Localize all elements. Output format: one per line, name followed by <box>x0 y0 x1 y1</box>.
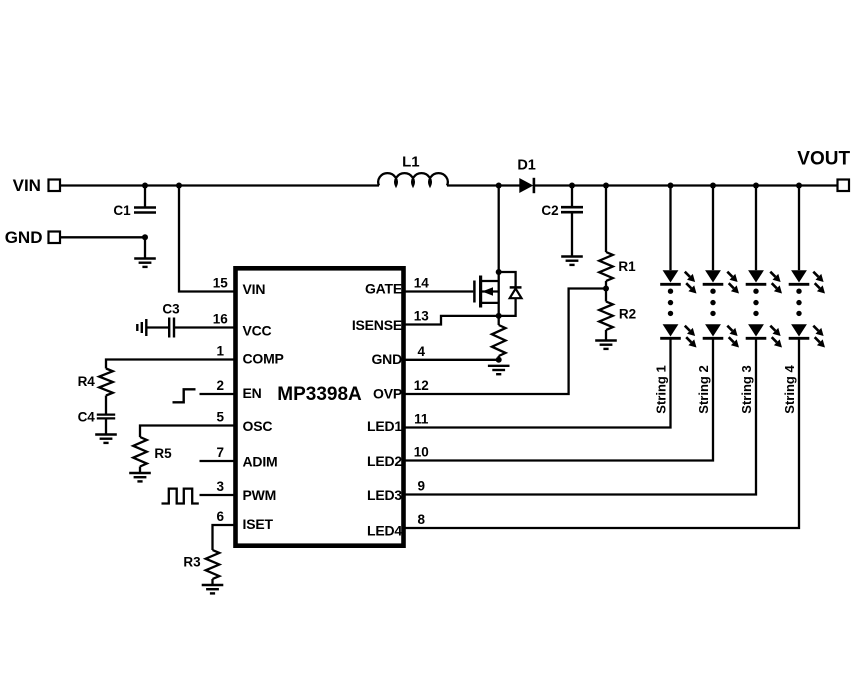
svg-text:6: 6 <box>217 509 225 524</box>
LED D1B string 1 bottom <box>663 324 679 336</box>
ground under sense resistor <box>488 365 510 367</box>
node rail-R1 junction <box>603 183 609 189</box>
PWM square waveform symbol <box>162 489 199 504</box>
wire rail to string 4 <box>798 186 800 271</box>
wire pin 13 ISENSE to source <box>404 316 499 325</box>
string 1 ellipsis dots <box>668 289 673 294</box>
wire pin 6 ISET to R3 <box>213 525 236 550</box>
svg-text:String 4: String 4 <box>782 365 797 414</box>
resistor R4 <box>99 369 113 396</box>
LED D3A string 3 top <box>748 270 764 282</box>
wire ground to C3 <box>146 326 169 328</box>
svg-text:MP3398A: MP3398A <box>277 384 362 405</box>
node rail string 4 junction <box>796 183 802 189</box>
svg-text:PWM: PWM <box>243 487 277 503</box>
wire string 2 to pin LED2 <box>404 338 713 460</box>
LED D1A string 1 top <box>663 270 679 282</box>
svg-text:1: 1 <box>217 344 225 359</box>
resistor R5 <box>133 437 147 467</box>
node sense-gnd junction <box>496 357 502 363</box>
svg-text:GND: GND <box>371 351 402 367</box>
LED D4B string 4 bottom <box>791 324 807 336</box>
wire rail to string 2 <box>712 186 714 271</box>
capacitor C4 <box>97 414 115 416</box>
svg-text:VOUT: VOUT <box>797 149 850 170</box>
ground left of C3 <box>136 324 138 331</box>
svg-text:OSC: OSC <box>243 418 273 434</box>
resistor R2 <box>605 289 607 302</box>
wire pin 12 OVP to R1-R2 divider <box>404 289 606 395</box>
op-amp U1 MP3398A body <box>236 268 404 545</box>
LED D2A string 2 top <box>705 270 721 282</box>
svg-text:15: 15 <box>213 276 229 291</box>
wire R5 to ground <box>139 467 141 473</box>
wire pin 7 ADIM stub <box>200 460 236 462</box>
svg-text:VIN: VIN <box>243 281 266 297</box>
wire string 4 to pin LED4 <box>404 338 799 528</box>
string 2 ellipsis dots <box>710 289 715 294</box>
svg-text:7: 7 <box>217 445 225 460</box>
svg-text:String 1: String 1 <box>653 365 668 413</box>
svg-text:R1: R1 <box>618 259 636 274</box>
LED D4A string 4 top <box>791 270 807 282</box>
svg-text:C2: C2 <box>541 203 558 218</box>
wire drain to rail <box>498 186 500 273</box>
node rail string 1 junction <box>668 183 674 189</box>
ground under C1 <box>134 257 156 259</box>
resistor Rsense <box>498 316 500 325</box>
node rail-drain junction <box>496 183 502 189</box>
ground under C4 <box>95 433 117 435</box>
resistor R1 <box>605 186 607 253</box>
node R1-R2 junction <box>603 286 609 292</box>
svg-text:14: 14 <box>414 276 430 291</box>
node GND-C1 junction <box>142 234 148 240</box>
wire pin 5 OSC to R5 <box>140 426 235 438</box>
svg-text:L1: L1 <box>402 154 420 171</box>
node source junction <box>496 313 502 319</box>
svg-text:12: 12 <box>414 378 429 393</box>
wire R4 to C4 <box>105 396 107 415</box>
svg-text:16: 16 <box>213 312 229 327</box>
diode D1 <box>519 178 533 193</box>
EN enable step waveform symbol <box>173 389 196 402</box>
transistor Q1 MOSFET <box>473 281 476 303</box>
svg-text:R2: R2 <box>619 306 636 321</box>
svg-text:ISET: ISET <box>243 516 274 532</box>
VOUT terminal <box>838 180 850 192</box>
ground under R5 <box>129 472 151 474</box>
svg-text:4: 4 <box>418 344 426 359</box>
svg-text:GATE: GATE <box>365 280 402 296</box>
wire pin 2 EN stub <box>200 393 236 395</box>
wire rail D1 to VOUT <box>535 184 838 186</box>
ground under C2 <box>561 255 583 257</box>
LED D2B string 2 bottom <box>705 324 721 336</box>
svg-text:9: 9 <box>418 479 426 494</box>
resistor R3 <box>206 550 220 579</box>
wire pin 14 GATE to MOSFET gate <box>404 290 473 292</box>
wire rail to string 3 <box>755 186 757 271</box>
wire VIN to pin 15 <box>179 186 235 292</box>
node rail string 3 junction <box>753 183 759 189</box>
svg-text:ISENSE: ISENSE <box>352 317 402 333</box>
capacitor C1 <box>144 186 146 208</box>
svg-text:2: 2 <box>217 378 225 393</box>
VIN terminal <box>49 180 61 192</box>
svg-text:3: 3 <box>217 479 225 494</box>
svg-text:EN: EN <box>243 385 262 401</box>
wire VIN rail left segment <box>60 184 379 186</box>
svg-text:OVP: OVP <box>373 385 402 401</box>
wire GND to C1 bottom <box>60 236 145 238</box>
svg-text:10: 10 <box>414 445 429 460</box>
node drain junction <box>496 269 502 275</box>
body diode of Q1 <box>499 272 516 287</box>
svg-text:GND: GND <box>5 228 43 247</box>
wire string 3 to pin LED3 <box>404 338 756 494</box>
svg-text:LED1: LED1 <box>367 418 402 434</box>
svg-text:13: 13 <box>414 309 430 324</box>
svg-text:LED2: LED2 <box>367 453 402 469</box>
svg-text:VCC: VCC <box>243 323 272 339</box>
svg-text:5: 5 <box>217 410 225 425</box>
capacitor C3 <box>168 318 170 338</box>
GND terminal <box>49 232 61 244</box>
wire C3 to pin 16 VCC <box>174 326 235 328</box>
svg-text:VIN: VIN <box>13 176 41 195</box>
wire C4 to ground <box>105 419 107 435</box>
wire pin 4 GND to sense resistor <box>404 359 499 361</box>
node VIN branch to pin 15 <box>176 183 182 189</box>
svg-text:C4: C4 <box>78 409 96 424</box>
string 3 ellipsis dots <box>753 289 758 294</box>
LED D3B string 3 bottom <box>748 324 764 336</box>
svg-text:D1: D1 <box>517 157 536 173</box>
capacitor C2 <box>571 186 573 208</box>
node rail string 2 junction <box>710 183 716 189</box>
svg-text:R3: R3 <box>183 554 201 569</box>
svg-text:C1: C1 <box>113 203 131 218</box>
svg-text:R5: R5 <box>154 446 172 461</box>
svg-text:LED3: LED3 <box>367 487 402 503</box>
wire rail L1 to D1 <box>447 184 520 186</box>
wire pin 3 PWM stub <box>200 494 236 496</box>
svg-text:String 2: String 2 <box>696 365 711 413</box>
svg-text:ADIM: ADIM <box>243 454 278 470</box>
svg-text:COMP: COMP <box>243 351 284 367</box>
wire string 1 to pin LED1 <box>404 338 671 427</box>
wire rail to string 1 <box>669 186 671 271</box>
node VIN-C1 junction <box>142 183 148 189</box>
ground under R2 <box>595 339 617 341</box>
wire R3 to ground <box>211 579 213 585</box>
svg-text:C3: C3 <box>162 302 180 317</box>
inductor L1 <box>378 173 448 185</box>
ground under R3 <box>202 584 224 586</box>
svg-text:LED4: LED4 <box>367 523 402 539</box>
wire pin 1 COMP to R4 <box>106 360 235 369</box>
string 4 ellipsis dots <box>796 289 801 294</box>
svg-text:8: 8 <box>418 512 426 527</box>
svg-text:11: 11 <box>414 412 429 427</box>
svg-text:String 3: String 3 <box>739 365 754 413</box>
svg-text:R4: R4 <box>78 374 96 389</box>
node rail-C2 junction <box>569 183 575 189</box>
wire C1 to ground <box>144 237 146 258</box>
